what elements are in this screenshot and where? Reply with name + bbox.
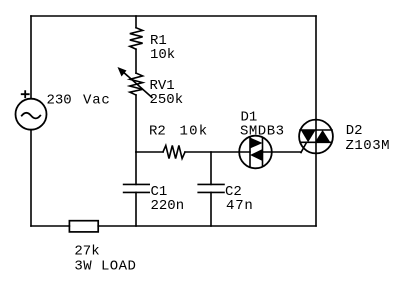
svg-text:D2: D2 bbox=[346, 123, 363, 139]
ac source V1 circle bbox=[16, 99, 47, 130]
ac source V1 sine wave bbox=[22, 113, 41, 119]
wire bottom rail right of load bbox=[98, 225, 316, 227]
triac D2 bottom bar bbox=[301, 141, 332, 143]
potentiometer RV1 arrowhead bbox=[118, 67, 127, 77]
svg-text:Vac: Vac bbox=[83, 93, 111, 109]
wire top rail bbox=[31, 15, 316, 17]
wire between R1 and RV1 bbox=[135, 49, 137, 73]
wire left rail lower bbox=[30, 130, 32, 226]
potentiometer RV1 wiper arrow bbox=[122, 71, 153, 98]
wire R1 column top stub bbox=[135, 16, 137, 28]
triac D2 gate lead bbox=[301, 143, 307, 153]
resistor R1 bbox=[130, 28, 143, 50]
wire diac right to triac gate bbox=[263, 151, 302, 153]
diac D1 left bar bbox=[249, 138, 251, 166]
svg-text:10k: 10k bbox=[150, 47, 175, 63]
svg-text:10k: 10k bbox=[180, 124, 209, 140]
capacitor C1 bbox=[124, 183, 150, 185]
diac D1 right bar bbox=[262, 138, 264, 166]
wire RV1 to R2 node bbox=[135, 95, 137, 152]
resistor R2 bbox=[163, 146, 185, 159]
svg-text:SMDB3: SMDB3 bbox=[240, 123, 285, 139]
potentiometer RV1 bbox=[130, 73, 143, 95]
diac D1 lower triangle bbox=[250, 149, 263, 161]
svg-text:220n: 220n bbox=[151, 198, 185, 214]
ac source V1 plus sign bbox=[22, 91, 29, 97]
triac D2 left triangle bbox=[301, 130, 316, 142]
svg-text:250k: 250k bbox=[150, 92, 184, 108]
svg-text:47n: 47n bbox=[226, 198, 254, 214]
svg-text:230: 230 bbox=[47, 93, 72, 109]
wire C2 to bottom rail bbox=[210, 192, 212, 226]
diac D1 upper triangle bbox=[250, 138, 263, 149]
wire R2 to diac D1 bbox=[185, 151, 250, 153]
svg-text:27k: 27k bbox=[74, 243, 99, 259]
triac D2 top bar bbox=[300, 129, 332, 131]
svg-text:Z103M: Z103M bbox=[346, 138, 391, 154]
wire C2 column bbox=[210, 152, 212, 184]
capacitor C2 bbox=[198, 183, 224, 185]
diac D1 circle bbox=[239, 136, 272, 169]
wire bottom rail left of load bbox=[31, 225, 69, 227]
wire C1 to bottom rail bbox=[135, 192, 137, 226]
wire R2 left lead bbox=[136, 151, 163, 153]
wire R2 node to C1 bbox=[135, 152, 137, 184]
resistor 27k load box bbox=[69, 221, 98, 232]
svg-text:R2: R2 bbox=[149, 124, 166, 140]
wire left rail upper bbox=[30, 16, 32, 99]
triac D2 circle bbox=[299, 120, 333, 154]
svg-text:3W LOAD: 3W LOAD bbox=[74, 259, 136, 275]
wire right rail bbox=[315, 16, 317, 226]
triac D2 right triangle bbox=[315, 130, 330, 142]
